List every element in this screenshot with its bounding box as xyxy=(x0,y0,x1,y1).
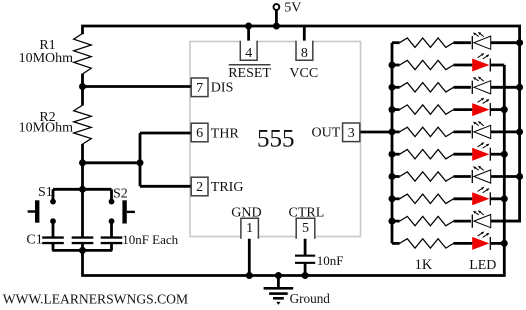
svg-text:S1: S1 xyxy=(38,185,53,200)
svg-text:S2: S2 xyxy=(113,187,128,202)
svg-text:7: 7 xyxy=(196,81,203,96)
svg-text:10MOhm: 10MOhm xyxy=(19,51,74,66)
svg-text:555: 555 xyxy=(257,126,295,153)
svg-text:C1: C1 xyxy=(26,233,42,248)
svg-text:VCC: VCC xyxy=(289,66,318,81)
svg-text:10nF Each: 10nF Each xyxy=(122,232,178,247)
svg-text:WWW.LEARNERSWNGS.COM: WWW.LEARNERSWNGS.COM xyxy=(3,292,188,307)
svg-text:OUT: OUT xyxy=(312,126,341,141)
svg-text:5V: 5V xyxy=(284,1,301,16)
svg-text:5: 5 xyxy=(302,221,309,236)
svg-text:Ground: Ground xyxy=(290,291,331,306)
svg-text:TRIG: TRIG xyxy=(211,180,244,195)
svg-text:4: 4 xyxy=(245,46,252,61)
svg-text:8: 8 xyxy=(301,46,308,61)
svg-text:3: 3 xyxy=(348,126,355,141)
svg-text:RESET: RESET xyxy=(228,66,271,81)
svg-text:CTRL: CTRL xyxy=(289,206,325,221)
svg-text:1K: 1K xyxy=(415,257,433,273)
svg-text:2: 2 xyxy=(196,180,203,195)
svg-text:DIS: DIS xyxy=(211,81,234,96)
svg-text:6: 6 xyxy=(196,126,203,141)
svg-text:GND: GND xyxy=(231,206,261,221)
svg-text:10MOhm: 10MOhm xyxy=(19,121,74,136)
svg-text:THR: THR xyxy=(211,127,240,142)
svg-text:10nF: 10nF xyxy=(317,253,344,268)
svg-text:1: 1 xyxy=(246,221,253,236)
svg-text:LED: LED xyxy=(469,258,496,273)
